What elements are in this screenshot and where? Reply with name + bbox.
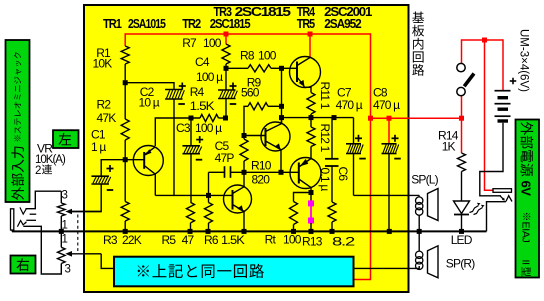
- wire SP(R) feed from ground node: [418, 231, 420, 251]
- volume pot right element: [60, 231, 62, 247]
- svg-text:II: II: [519, 260, 531, 265]
- wire TR1 collector to TR2 base: [155, 194, 232, 196]
- label circuit-on-board note (vertical): [412, 12, 424, 23]
- svg-text:EIAJ: EIAJ: [519, 222, 531, 243]
- wire R14 feed (red): [461, 118, 463, 153]
- svg-text:22K: 22K: [122, 233, 142, 247]
- node V+ C7 branch (red junction): [368, 116, 373, 121]
- capacitor C1 polarity plus: [107, 168, 114, 170]
- node C4 junction: [223, 116, 228, 121]
- svg-text:SP(R): SP(R): [446, 256, 475, 270]
- DC jack break contact: [506, 196, 512, 202]
- wire V+ stub to R7 (red): [225, 34, 227, 44]
- svg-text:SP(L): SP(L): [411, 173, 438, 187]
- wire R4 to C4 node: [219, 117, 227, 119]
- capacitor C8 polarity minus: [394, 158, 401, 160]
- svg-text:3: 3: [65, 264, 71, 276]
- battery UM-3 x4 polarity plus: [510, 80, 517, 82]
- svg-text:1K: 1K: [442, 139, 456, 153]
- volume pot right wiper: [65, 251, 72, 257]
- node TR5 collector junction: [309, 190, 314, 195]
- node output C6 junction: [332, 115, 337, 120]
- svg-text:10K: 10K: [93, 56, 113, 70]
- volume pot left wiper: [65, 209, 72, 215]
- resistor R8: [248, 65, 271, 72]
- wire TR5 collector to Rt: [294, 193, 312, 202]
- wire C4 to feedback node: [225, 99, 227, 119]
- transistor TR3 (2SC1815 NPN, driver): [261, 122, 290, 151]
- node R4-C3 junction: [189, 116, 194, 121]
- svg-text:R13: R13: [302, 234, 323, 248]
- resistor R7: [222, 44, 230, 64]
- svg-text:1: 1: [62, 234, 68, 246]
- capacitor C7 polarity plus: [355, 137, 362, 139]
- capacitor C2 polarity plus: [179, 85, 186, 87]
- resistor R4: [200, 114, 219, 121]
- capacitor C4: [225, 68, 227, 90]
- svg-text:47: 47: [182, 233, 195, 247]
- svg-text:C6: C6: [336, 167, 350, 182]
- transistor TR1 (2SA1015 PNP): [133, 146, 163, 176]
- capacitor C3 polarity plus: [196, 139, 203, 141]
- wire switch upper contact lead (red): [461, 39, 463, 63]
- capacitor C8: [382, 143, 397, 145]
- svg-text:R3: R3: [103, 233, 118, 247]
- wire C3 to R5: [190, 154, 192, 203]
- node Rt ground junction: [291, 229, 296, 234]
- svg-text:R12 1: R12 1: [318, 124, 332, 153]
- wire base node to TR1: [125, 159, 144, 161]
- resistor R9: [244, 106, 248, 131]
- wire V+ right drop to lower channel (red): [354, 33, 371, 279]
- capacitor C7 polarity minus: [359, 158, 366, 160]
- node SP(L) ground junction: [417, 229, 422, 234]
- power switch: [457, 63, 465, 71]
- capacitor C7: [353, 118, 355, 144]
- svg-text:0.1 µ: 0.1 µ: [318, 168, 332, 192]
- wire C1 to volume wiper: [71, 184, 101, 212]
- wire V+ to TR4 collector (red): [309, 34, 311, 58]
- svg-text:560: 560: [241, 85, 260, 99]
- svg-text:100 µ: 100 µ: [196, 70, 223, 84]
- LED: [454, 201, 470, 214]
- resistor R11: [304, 86, 311, 93]
- wire battery top row (red): [462, 39, 504, 41]
- svg-text:100: 100: [203, 36, 222, 50]
- node R7-R8 junction: [224, 66, 229, 71]
- capacitor C8 polarity plus: [392, 137, 399, 139]
- volume pot left element: [60, 191, 62, 203]
- resistor R2: [124, 85, 126, 119]
- node LED ground junction: [459, 229, 464, 234]
- node output tap A (magenta): [308, 200, 314, 206]
- wire DC jack switched contact to ground rail: [487, 202, 506, 232]
- svg-text:TR5: TR5: [297, 17, 315, 31]
- svg-text:47K: 47K: [97, 111, 117, 125]
- wire TR4 base: [282, 67, 298, 69]
- capacitor C1 polarity minus: [107, 189, 114, 191]
- wire battery positive lead (red): [502, 39, 504, 90]
- svg-text:2: 2: [35, 165, 41, 177]
- wire V+ top rail (red): [125, 33, 371, 35]
- wire base node to C1: [101, 160, 125, 177]
- svg-text:R2: R2: [97, 98, 112, 112]
- wire amp output to SP(L): [354, 194, 420, 196]
- resistor R6: [208, 195, 210, 202]
- svg-text:R8: R8: [240, 48, 255, 62]
- node R5 ground junction: [188, 229, 193, 234]
- resistor R10: [243, 131, 245, 139]
- capacitor C1: [91, 175, 109, 177]
- wire R9 to TR4 collector line: [268, 105, 282, 107]
- svg-text:3: 3: [62, 190, 68, 202]
- svg-text:100: 100: [258, 48, 277, 62]
- wire TR3 collector (to TR4 base node): [281, 118, 283, 124]
- wire C5 to TR2 collector node: [231, 171, 299, 173]
- node TR2 base junction: [206, 193, 211, 198]
- wire ground rail: [12, 230, 487, 232]
- wire output node row: [282, 117, 354, 119]
- svg-text:R7: R7: [182, 36, 197, 50]
- wire R8 to TR4 base node: [271, 67, 282, 69]
- wire right channel output to SP(R): [355, 267, 420, 269]
- svg-text:820: 820: [252, 173, 271, 187]
- svg-text:100: 100: [283, 232, 302, 246]
- resistor R14: [458, 153, 466, 172]
- input jack left contact: [20, 207, 26, 214]
- wire C7 to speaker line: [353, 154, 355, 196]
- circuit board outline (yellow PCB area): [84, 5, 409, 292]
- resistor R12: [310, 118, 312, 127]
- wire DC jack center pin lead (red): [485, 40, 494, 190]
- svg-text:8.2: 8.2: [332, 234, 356, 248]
- label Right channel (green box): [11, 256, 36, 274]
- wire right wiper to duplicate circuit: [101, 254, 113, 269]
- label external power (green box): [516, 120, 540, 278]
- node V+ at TR4 collector (red junction): [308, 32, 313, 37]
- resistor R3: [121, 202, 129, 222]
- node TR2 collector junction: [242, 170, 247, 175]
- speaker SP(R): [416, 251, 423, 258]
- wire V+ row to switch (red): [371, 117, 462, 119]
- svg-text:TR1: TR1: [103, 17, 122, 31]
- capacitor C2: [173, 82, 175, 90]
- wire TR3 emitter: [280, 150, 282, 173]
- resistor R1: [121, 46, 129, 64]
- node output R11-R12 junction: [309, 115, 314, 120]
- wire V+ drop to R1 (red): [124, 33, 126, 46]
- svg-text:TR2: TR2: [182, 17, 201, 31]
- transistor TR5 (2SA952 PNP, lower output): [290, 158, 321, 189]
- battery UM-3 x4 (6V): [495, 90, 511, 92]
- node TR3 emitter junction: [279, 170, 284, 175]
- svg-text:1.5K: 1.5K: [190, 99, 215, 113]
- node TR3 base junction: [242, 133, 247, 138]
- wire TR4 base node column: [281, 68, 283, 106]
- wire base node down to R3: [124, 160, 126, 202]
- svg-text:470 µ: 470 µ: [373, 98, 400, 112]
- resistor R5: [187, 202, 195, 223]
- pot gang link (dashed): [77, 215, 79, 252]
- svg-text:C3: C3: [176, 121, 191, 135]
- svg-text:C4: C4: [195, 55, 210, 69]
- svg-text:1 µ: 1 µ: [91, 140, 106, 154]
- input jack sleeve: [11, 209, 14, 230]
- capacitor C4 polarity minus: [230, 103, 237, 105]
- capacitor C5: [209, 171, 225, 173]
- node V+ at switch drop (red junction): [459, 116, 464, 121]
- svg-text:R10: R10: [251, 158, 272, 172]
- wire C5 corner to TR2 base node: [208, 172, 210, 195]
- svg-text:2SA952: 2SA952: [324, 17, 362, 31]
- node pot common ground: [59, 229, 64, 234]
- node R1-R2 junction: [123, 80, 128, 85]
- wire output tap upper (black): [310, 193, 312, 202]
- svg-text:10 µ: 10 µ: [139, 95, 160, 109]
- wire LED cathode to ground: [461, 215, 463, 232]
- node R13 ground junction: [330, 229, 335, 234]
- node C8 ground junction: [387, 229, 392, 234]
- wire node to C2: [125, 82, 174, 84]
- node TR4 base junction: [279, 66, 284, 71]
- svg-text:R11 1: R11 1: [318, 82, 332, 110]
- wire TR1 emitter feedback row: [155, 118, 200, 146]
- wire C2 to TR2 base line: [173, 99, 175, 195]
- node R6 ground junction: [206, 229, 211, 234]
- node TR1 base junction: [123, 157, 128, 162]
- wire output link (magenta): [310, 206, 312, 219]
- transistor TR2 (2SC1815 NPN): [224, 185, 252, 213]
- wire TR2 emitter: [243, 211, 245, 231]
- svg-text:R5: R5: [162, 233, 177, 247]
- resistor Rt: [290, 202, 298, 225]
- node output at TR2 collector column: [279, 115, 284, 120]
- duplicate circuit note (cyan box): [114, 257, 354, 287]
- wire output tap lower (black): [310, 223, 312, 231]
- resistor R13: [328, 202, 336, 222]
- label external input (green box): [6, 40, 30, 202]
- svg-text:R6: R6: [204, 233, 219, 247]
- wire R14 to LED: [461, 172, 463, 202]
- wire TR1 collector: [154, 174, 156, 195]
- node R3 ground junction: [123, 229, 128, 234]
- DC jack center pin: [493, 189, 512, 193]
- capacitor C2 polarity minus: [178, 103, 185, 105]
- svg-text:6V: 6V: [519, 181, 534, 197]
- svg-text:1.5K: 1.5K: [221, 233, 245, 247]
- svg-text:R4: R4: [190, 85, 205, 99]
- capacitor C6: [331, 118, 333, 159]
- wire R7 node to R8: [226, 67, 248, 69]
- wire TR5 collector: [310, 188, 312, 193]
- transistor TR4 (2SC2001 NPN, upper output): [290, 57, 321, 88]
- node DC jack branch (red junction): [482, 38, 487, 43]
- wire TR2 collector: [243, 172, 245, 187]
- node R9 junction: [279, 104, 284, 109]
- wire switch to V+ row (red): [461, 96, 463, 118]
- svg-text:100 µ: 100 µ: [195, 121, 222, 135]
- svg-text:LED: LED: [451, 233, 473, 247]
- wire TR3 base: [244, 135, 266, 137]
- wire battery negative lead: [480, 123, 503, 196]
- capacitor C3: [190, 118, 192, 146]
- wire C8 negative to ground: [388, 154, 390, 232]
- speaker SP(L): [416, 197, 423, 204]
- DC jack tip contact arrow: [500, 196, 504, 200]
- svg-text:UM-3×4(6V): UM-3×4(6V): [518, 29, 530, 92]
- node V+ at R7 (red junction): [224, 32, 229, 37]
- node output tap B (magenta): [308, 218, 314, 224]
- node speaker return ground junction: [309, 229, 314, 234]
- input jack right contact: [17, 221, 26, 227]
- capacitor C4 polarity plus: [230, 85, 237, 87]
- node V+ C8 branch (red junction): [387, 116, 392, 121]
- svg-text:47P: 47P: [215, 151, 235, 165]
- svg-text:2SC1815: 2SC1815: [210, 17, 251, 31]
- wire C8 positive lead (red): [388, 118, 390, 144]
- node TR2 emitter ground junction: [242, 229, 247, 234]
- label Left channel (green box): [53, 130, 79, 148]
- svg-text:2SA1015: 2SA1015: [128, 17, 166, 31]
- svg-text:Rt: Rt: [265, 232, 277, 246]
- svg-text:470 µ: 470 µ: [336, 98, 363, 112]
- capacitor C3 polarity minus: [196, 159, 203, 161]
